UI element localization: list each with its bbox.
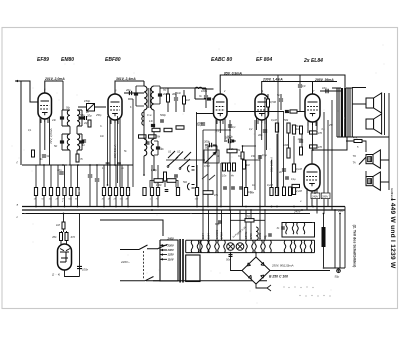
wire speaker bus bbox=[384, 93, 386, 135]
resistor tone stack 3 bbox=[233, 163, 236, 171]
resistor 7ohm bbox=[245, 219, 254, 222]
resistor 2k bbox=[88, 120, 91, 127]
coil L4 bbox=[77, 134, 80, 150]
resistor 132 box bbox=[152, 128, 160, 131]
svg-text:EF89: EF89 bbox=[250, 233, 253, 239]
tube V6 EL84 (2) bbox=[304, 161, 320, 194]
resistor R17 cathode/ground row bbox=[102, 188, 105, 196]
wire middle verticals bbox=[197, 98, 303, 210]
wire EABC80 supply line bbox=[220, 75, 345, 91]
capacitor trimmer osc1 left bbox=[60, 116, 64, 119]
svg-text:245V: 245V bbox=[337, 210, 344, 213]
power transformer Tr1 HT secondary box bbox=[186, 255, 200, 282]
resistor 0,2M (2) bbox=[275, 188, 278, 196]
resistor 2M bbox=[167, 94, 170, 102]
wire resistors to EM80 bbox=[61, 241, 67, 245]
wire heater box edge bbox=[199, 240, 201, 252]
wire mains tap feed bbox=[100, 220, 163, 236]
svg-text:0,5M: 0,5M bbox=[270, 100, 277, 104]
svg-text:240V: 240V bbox=[311, 195, 318, 199]
switch S2 TO/TA bbox=[359, 156, 367, 165]
svg-text:250p: 250p bbox=[95, 114, 102, 117]
output transformer Tr2 core bbox=[341, 88, 343, 137]
svg-text:1M: 1M bbox=[56, 223, 61, 227]
wire AVC bus bbox=[22, 164, 133, 166]
wire EF89 anode supply bbox=[45, 81, 63, 90]
svg-text:0,1: 0,1 bbox=[232, 125, 236, 129]
wire bridge output bbox=[270, 270, 330, 272]
resistor R22 cathode/ground row bbox=[150, 188, 153, 196]
resistor R15 cathode/ground row bbox=[69, 188, 72, 196]
IF can T1 frame bbox=[136, 86, 160, 106]
wire AF line to EL84 bbox=[227, 111, 305, 113]
wire coupling L1-L3 bbox=[63, 81, 77, 165]
resistor 132 box2 bbox=[149, 135, 157, 138]
svg-text:EM80: EM80 bbox=[61, 57, 74, 63]
wire EM80 feed bbox=[63, 214, 65, 223]
tube V2 EBF80 bbox=[108, 91, 122, 123]
svg-text:0,1μ: 0,1μ bbox=[291, 178, 296, 181]
resistor 47u box bbox=[203, 191, 213, 195]
resistor 1M EM80 grid bbox=[62, 222, 65, 229]
svg-text:45k: 45k bbox=[52, 235, 57, 239]
power transformer Tr1 core bbox=[179, 239, 181, 283]
wire osc group1 frame bbox=[62, 110, 82, 126]
coil L6 choke bbox=[256, 227, 258, 240]
switch S3 mains pole 2 bbox=[145, 277, 160, 281]
svg-text:18n: 18n bbox=[250, 192, 255, 195]
resistor 47k feedback bbox=[354, 140, 362, 143]
resistor 470 (1) bbox=[310, 131, 318, 134]
IF transformer T2 primary coil bbox=[144, 139, 147, 156]
resistor tone stack 2 bbox=[228, 163, 231, 171]
capacitor 300u b bbox=[230, 140, 234, 142]
tap arrows bbox=[160, 244, 163, 260]
svg-text:TA: TA bbox=[353, 162, 356, 165]
svg-text:100p: 100p bbox=[201, 89, 207, 93]
resistor R12 cathode/ground row bbox=[49, 188, 52, 196]
svg-text:220V: 220V bbox=[167, 243, 174, 247]
node terminal 50u bbox=[337, 269, 341, 273]
svg-text:361V, 2,4mA: 361V, 2,4mA bbox=[116, 77, 136, 81]
capacitor AF1 bbox=[223, 187, 227, 189]
tube V4 EF804 bbox=[255, 91, 269, 123]
capacitor NF bbox=[174, 175, 178, 177]
svg-text:100k: 100k bbox=[283, 143, 289, 147]
capacitor 3n detector bbox=[195, 98, 214, 100]
resistor 0,2M box h bbox=[292, 184, 300, 187]
lamp La2 pilot bbox=[236, 243, 244, 251]
resistor 1M bbox=[183, 96, 186, 104]
capacitor 0,1u bbox=[285, 177, 289, 179]
wire Tr2 top connections bbox=[332, 88, 366, 105]
tube V5 EL84 (1) bbox=[305, 91, 320, 125]
capacitor 1n b bbox=[117, 163, 121, 165]
svg-text:TO: TO bbox=[353, 155, 356, 158]
capacitor C electrolytic bar bbox=[322, 227, 326, 247]
value label 240V boxed bbox=[311, 193, 320, 199]
capacitor 10k grid bbox=[174, 98, 178, 100]
svg-text:20p: 20p bbox=[125, 88, 131, 92]
svg-text:150p: 150p bbox=[84, 99, 91, 103]
wire EBF80 anode supply bbox=[115, 81, 144, 91]
svg-text:2,2k: 2,2k bbox=[228, 148, 234, 151]
coil L3 bbox=[67, 134, 70, 150]
IF can T2 frame bbox=[154, 141, 158, 155]
svg-text:24k: 24k bbox=[51, 119, 57, 122]
wire chassis bottom bbox=[146, 280, 267, 282]
IF transformer T1 secondary coil bbox=[151, 86, 154, 110]
resistor R19 cathode/ground row bbox=[114, 188, 117, 196]
jack TA input 2 bbox=[187, 183, 189, 190]
wire EBF80 cathode drops bbox=[110, 118, 120, 187]
wire tweeter bus bbox=[366, 160, 389, 182]
heater winding EABC80 bbox=[209, 240, 217, 252]
output transformer Tr2 windings right bbox=[348, 88, 352, 137]
resistor R24 cathode/ground row bbox=[195, 188, 198, 196]
svg-text:25k: 25k bbox=[328, 124, 334, 127]
power transformer Tr1 tap staircase bbox=[160, 245, 167, 259]
svg-text:2M: 2M bbox=[162, 92, 167, 96]
wire AF coupling horizontals bbox=[188, 130, 256, 163]
wire EL84 anode to output transformer with cap bbox=[320, 90, 341, 92]
lamp La1 pilot bbox=[227, 243, 235, 251]
tube V7 EM80 magic eye bbox=[58, 244, 72, 270]
wire EABC80 drops bbox=[216, 118, 225, 146]
resistor 50k bbox=[287, 123, 290, 133]
capacitor AF2 bbox=[231, 187, 235, 189]
svg-text:470: 470 bbox=[318, 146, 323, 149]
speaker LS1 bbox=[366, 93, 382, 113]
svg-text:125V: 125V bbox=[168, 253, 174, 257]
svg-text:(w): (w) bbox=[163, 89, 167, 92]
capacitor 5n el bbox=[299, 140, 303, 142]
speaker LS2 bbox=[366, 114, 382, 134]
svg-text:50p: 50p bbox=[80, 113, 85, 117]
svg-text:1n: 1n bbox=[82, 143, 85, 147]
jack TA input 1 bbox=[187, 165, 189, 172]
capacitor T2 1n bbox=[156, 146, 160, 149]
coil L5 detector bbox=[195, 87, 214, 99]
potentiometer P1 body bbox=[204, 150, 219, 163]
svg-text:47k: 47k bbox=[353, 136, 358, 140]
junction dots extra bbox=[43, 97, 324, 269]
value label 285V boxed bbox=[321, 193, 330, 199]
svg-text:3-: 3- bbox=[100, 125, 102, 128]
svg-text:10n: 10n bbox=[100, 135, 105, 138]
capacitor 200u bbox=[228, 139, 230, 144]
wire mains line lower bbox=[120, 280, 145, 282]
svg-text:60p: 60p bbox=[215, 222, 220, 226]
heater winding EL84 bbox=[201, 240, 209, 252]
svg-text:2,2M: 2,2M bbox=[295, 189, 303, 193]
speaker LS3 tweeter bbox=[366, 150, 380, 168]
junction dots ground bus bbox=[35, 206, 341, 215]
capacitor 13n bbox=[151, 124, 155, 127]
switch S1 contacts lower bbox=[168, 157, 190, 168]
coil Cw wave trap bbox=[142, 112, 144, 125]
wire bus segment 7ohm bbox=[230, 219, 265, 221]
svg-text:13n: 13n bbox=[149, 120, 154, 123]
svg-text:200V: 200V bbox=[167, 248, 174, 252]
svg-text:110V: 110V bbox=[168, 257, 174, 261]
svg-text:EABC80: EABC80 bbox=[216, 229, 219, 239]
svg-text:(2. Teil des Schaltbildes): (2. Teil des Schaltbildes) bbox=[353, 225, 357, 269]
wire heater drops bbox=[203, 210, 265, 240]
svg-text:EBF80: EBF80 bbox=[105, 57, 121, 63]
wire af links bbox=[150, 180, 178, 188]
capacitor trimmer osc2 left bbox=[60, 140, 64, 143]
capacitor 200p diode bbox=[201, 123, 205, 125]
resistor R11 cathode/ground row bbox=[42, 188, 45, 196]
svg-text:EF 804: EF 804 bbox=[256, 57, 272, 63]
potentiometer P1 volume bbox=[205, 152, 216, 163]
wire to EM80 bbox=[62, 229, 67, 233]
wire EL84(1) cathode bbox=[308, 120, 317, 150]
wire EL84(2) cathode bbox=[307, 188, 317, 214]
wire bus c bbox=[22, 213, 310, 215]
capacitor trimmer osc2 right bbox=[80, 140, 84, 143]
capacitor 3n heater a bbox=[281, 227, 285, 229]
coil L2 oscillator secondary bbox=[77, 110, 80, 126]
svg-text:2x EL84: 2x EL84 bbox=[303, 58, 323, 64]
svg-text:20p: 20p bbox=[83, 122, 89, 125]
svg-text:47k: 47k bbox=[71, 235, 76, 239]
capacitor 20p coupling bbox=[124, 92, 144, 94]
svg-text:201V, 2,0mA: 201V, 2,0mA bbox=[44, 77, 65, 81]
svg-text:50p: 50p bbox=[66, 107, 71, 110]
resistor R10 cathode/ground row bbox=[34, 188, 37, 196]
tube V1 EF89 bbox=[38, 90, 52, 122]
wire tube pin stubs bbox=[41, 119, 316, 194]
resistor 1k el bbox=[300, 147, 303, 155]
capacitor 0,5u bbox=[258, 156, 262, 158]
svg-text:EF804: EF804 bbox=[221, 231, 224, 239]
capacitor AF3 bbox=[239, 187, 243, 189]
wire ground bus a bbox=[22, 206, 345, 208]
svg-text:B 250 C 100: B 250 C 100 bbox=[269, 275, 288, 279]
capacitor 4n tone bbox=[282, 169, 286, 171]
svg-text:500p: 500p bbox=[160, 113, 166, 117]
resistor 1M AF bbox=[243, 160, 246, 169]
resistor 1,2k bottom bbox=[143, 188, 146, 196]
wire heater rail bottom bbox=[186, 252, 315, 254]
svg-text:0,1M: 0,1M bbox=[271, 118, 278, 122]
svg-text:200p: 200p bbox=[195, 124, 202, 127]
capacitor 10n decoupling bbox=[59, 172, 64, 174]
wire heater rail ends bbox=[186, 240, 315, 252]
resistor NF2 box bbox=[167, 179, 176, 183]
wire smoothing caps bbox=[324, 207, 346, 269]
resistor 0,3M bbox=[244, 188, 247, 196]
resistor NF vertical bbox=[164, 172, 167, 181]
capacitor 50n bbox=[95, 179, 100, 181]
resistor 6M bottom bbox=[176, 188, 179, 196]
svg-text:60V, 5,6mA: 60V, 5,6mA bbox=[113, 144, 117, 158]
svg-text:50μ: 50μ bbox=[335, 275, 340, 279]
wire EL84(2) anode link bbox=[312, 137, 347, 164]
wire bridge bottom bbox=[256, 284, 267, 288]
decorative speckle bbox=[12, 45, 385, 304]
wire left terminal bus vertical bbox=[20, 81, 22, 165]
switch S3 selector arm bbox=[157, 244, 168, 249]
resistor R13 cathode/ground row bbox=[56, 188, 59, 196]
capacitor T1 right bbox=[158, 93, 162, 96]
wire EF804 supply line bbox=[262, 82, 337, 92]
svg-text:0,2M: 0,2M bbox=[267, 183, 274, 187]
node antenna arrow bbox=[15, 80, 18, 83]
wire EBF80 screen link bbox=[128, 99, 133, 165]
resistor 0,1M (1) bbox=[275, 123, 278, 132]
svg-text:90V, 0,35mA: 90V, 0,35mA bbox=[270, 157, 274, 172]
svg-text:[2 · · 4]: [2 · · 4] bbox=[51, 274, 60, 277]
decorative scan dots bbox=[283, 286, 330, 296]
capacitor 60p bbox=[218, 221, 222, 223]
svg-text:220V~: 220V~ bbox=[120, 260, 130, 264]
rectifier bridge B250C100 bbox=[242, 257, 270, 284]
coil L1 oscillator primary bbox=[67, 110, 70, 126]
resistor 2,2k box bbox=[227, 149, 237, 153]
speaker LS4 tweeter bbox=[366, 172, 380, 190]
svg-text:EBF80: EBF80 bbox=[245, 231, 248, 239]
resistor 45k bbox=[60, 233, 63, 241]
resistor 7k screen bbox=[76, 154, 79, 162]
svg-text:EL84: EL84 bbox=[202, 233, 205, 239]
heater winding EBF80 bbox=[246, 240, 254, 252]
capacitor 100p bbox=[204, 96, 208, 98]
tube V3 EABC80 bbox=[214, 91, 228, 123]
heater winding EM80 bbox=[264, 240, 272, 252]
svg-text:47μ: 47μ bbox=[214, 194, 219, 197]
resistor R23 cathode/ground row bbox=[156, 188, 159, 196]
resistor 1,2M box bbox=[290, 110, 297, 113]
wire intertube verticals bbox=[324, 100, 332, 214]
resistor R21 cathode/ground row bbox=[126, 188, 129, 196]
capacitor 3n heater b bbox=[268, 234, 272, 236]
capacitor 1n a bbox=[106, 163, 110, 165]
capacitor 300u bbox=[209, 143, 211, 148]
capacitor 0,9 bbox=[299, 76, 301, 112]
wire Tr2 bottom connection bbox=[337, 93, 389, 190]
resistor 300k bbox=[267, 99, 270, 107]
wire AVC feed vertical bbox=[132, 99, 134, 187]
wire osc group2 frame bbox=[62, 134, 82, 150]
heater winding EF804 bbox=[218, 240, 226, 252]
capacitor af small bbox=[165, 190, 169, 192]
resistor 470 (2) bbox=[310, 145, 318, 148]
wire EM80 cathode return bbox=[65, 214, 80, 277]
resistor 2,2M bbox=[292, 187, 295, 195]
IF transformer T1 core bbox=[148, 88, 150, 108]
svg-text:I 449 W und I 1239 W: I 449 W und I 1239 W bbox=[389, 199, 396, 269]
svg-text:0,5μ: 0,5μ bbox=[262, 153, 268, 157]
wire EBF80 pin drops extra bbox=[108, 116, 118, 185]
svg-text:245V: 245V bbox=[293, 210, 302, 214]
IF transformer T1 primary coil bbox=[144, 86, 147, 110]
svg-text:230V, 1,4mA: 230V, 1,4mA bbox=[262, 78, 283, 82]
svg-text:50k: 50k bbox=[284, 118, 289, 122]
wire antenna terminal to EF89 grid bbox=[15, 81, 39, 102]
resistor 1M box bbox=[176, 126, 184, 129]
capacitor T1 left bbox=[134, 92, 138, 95]
resistor bottom d bbox=[283, 187, 286, 196]
resistor R18 cathode/ground row bbox=[108, 188, 111, 196]
resistor R14 cathode/ground row bbox=[63, 188, 66, 196]
svg-text:40n: 40n bbox=[258, 133, 263, 137]
svg-text:10n: 10n bbox=[222, 174, 227, 178]
svg-text:EABC 80: EABC 80 bbox=[211, 57, 232, 63]
wire T1 to T2 bbox=[144, 110, 154, 175]
svg-text:EM80: EM80 bbox=[259, 232, 262, 239]
resistor 1M (2) bbox=[292, 125, 295, 134]
svg-text:EF89: EF89 bbox=[37, 57, 49, 63]
switch S1 wave band contacts bbox=[168, 151, 191, 159]
svg-text:470: 470 bbox=[318, 132, 323, 135]
wire bridge top bbox=[255, 253, 257, 257]
resistor R20 cathode/ground row bbox=[120, 188, 123, 196]
resistor 47k bbox=[65, 233, 68, 241]
wire mains line upper bbox=[120, 249, 139, 251]
capacitor 40n grid bbox=[263, 130, 267, 132]
heater winding EL84 bbox=[191, 240, 199, 252]
svg-text:300μ: 300μ bbox=[227, 135, 233, 139]
svg-text:10n: 10n bbox=[322, 86, 327, 90]
svg-text:2k: 2k bbox=[85, 110, 89, 114]
capacitor 50p bbox=[78, 117, 84, 119]
resistor 182 box bbox=[164, 128, 172, 131]
svg-text:130: 130 bbox=[298, 138, 303, 141]
svg-text:100n: 100n bbox=[82, 268, 89, 272]
resistor 0,1M left bbox=[32, 150, 35, 157]
capacitor 1n bbox=[82, 140, 86, 142]
resistor 500k box bbox=[154, 179, 163, 183]
wire bridge bottom exit bbox=[267, 285, 271, 291]
svg-text:250V, 90(110)mA: 250V, 90(110)mA bbox=[271, 263, 294, 267]
capacitor Ca 10n bbox=[326, 89, 328, 94]
resistor bottom e bbox=[289, 187, 292, 196]
svg-text:0,5M: 0,5M bbox=[204, 165, 210, 168]
resistor R16 cathode/ground row bbox=[76, 188, 79, 196]
capacitor 50n heater bbox=[229, 255, 233, 257]
wire ground bus b bbox=[22, 209, 345, 211]
resistor 5k6 bbox=[300, 126, 303, 134]
trimmer C 150p bbox=[78, 104, 106, 112]
resistor tone stack 1 bbox=[223, 163, 226, 171]
switch S3 link dashed bbox=[143, 251, 145, 279]
wire bridge left bbox=[231, 253, 243, 271]
wire EABC grid line bbox=[196, 113, 214, 115]
resistor 101 box bbox=[139, 135, 147, 138]
svg-text:5Ω: 5Ω bbox=[54, 145, 57, 148]
capacitor AF blob bbox=[285, 110, 289, 113]
capacitor 5k left bbox=[42, 155, 46, 157]
heater loop lower right pair bbox=[284, 240, 292, 252]
svg-text:5n: 5n bbox=[277, 93, 280, 97]
capacitor 5n bbox=[279, 99, 283, 101]
capacitor 50n coupling bbox=[228, 125, 232, 127]
wire EF89 cathode drops bbox=[40, 117, 50, 165]
wire vertical drops to ground bus bbox=[36, 165, 197, 207]
capacitor 100n EM80 bbox=[77, 266, 82, 268]
resistor 0,2M (1) bbox=[270, 188, 273, 196]
wire detector line bbox=[160, 88, 206, 90]
resistor 0,1M (2) bbox=[292, 164, 295, 172]
switch S3 mains pole 1 bbox=[139, 245, 157, 250]
svg-text:0,1M: 0,1M bbox=[296, 167, 303, 171]
wire heater rail top bbox=[186, 239, 315, 241]
svg-text:300μ: 300μ bbox=[204, 140, 210, 144]
wire grid EF804 bbox=[246, 118, 267, 188]
